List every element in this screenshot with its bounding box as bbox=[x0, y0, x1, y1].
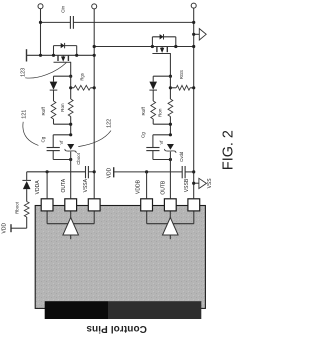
svg-text:Roff: Roff bbox=[41, 106, 46, 115]
svg-text:Cin: Cin bbox=[61, 6, 66, 13]
svg-text:Ron: Ron bbox=[158, 108, 163, 117]
svg-text:VDDB: VDDB bbox=[136, 179, 142, 194]
svg-text:121: 121 bbox=[22, 110, 28, 119]
svg-text:Cboot: Cboot bbox=[76, 152, 81, 164]
svg-text:VDDA: VDDA bbox=[35, 180, 41, 195]
svg-text:OUTA: OUTA bbox=[61, 178, 67, 192]
svg-text:VDD: VDD bbox=[106, 167, 112, 178]
svg-text:VSSB: VSSB bbox=[184, 178, 190, 192]
svg-text:Rgs: Rgs bbox=[79, 73, 84, 80]
svg-text:Cg: Cg bbox=[40, 136, 45, 142]
svg-text:123: 123 bbox=[21, 68, 27, 77]
svg-text:RGS: RGS bbox=[179, 70, 184, 79]
svg-text:Roff: Roff bbox=[141, 106, 146, 115]
svg-text:VSSA: VSSA bbox=[83, 178, 89, 192]
svg-text:Rboot: Rboot bbox=[14, 201, 19, 213]
svg-text:OUTB: OUTB bbox=[160, 180, 166, 195]
svg-text:Control Pins: Control Pins bbox=[86, 323, 147, 334]
svg-text:Ron: Ron bbox=[60, 103, 65, 112]
svg-text:VSS: VSS bbox=[207, 178, 213, 189]
svg-text:FIG. 2: FIG. 2 bbox=[221, 130, 237, 170]
svg-text:Cvdd: Cvdd bbox=[179, 151, 184, 162]
svg-text:Cg: Cg bbox=[140, 132, 145, 138]
svg-text:VDD: VDD bbox=[1, 223, 7, 234]
svg-text:122: 122 bbox=[107, 119, 113, 128]
